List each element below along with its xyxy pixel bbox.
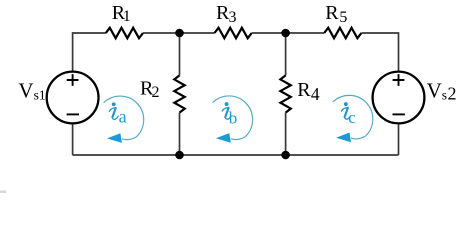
wire R3 to R5: [252, 32, 325, 34]
plus sign of Vs2: [393, 74, 405, 86]
voltage source Vs2: [373, 72, 425, 124]
node dot bottom-left junction: [175, 151, 184, 160]
wire Vs1 bottom lead: [72, 124, 74, 155]
minus sign of Vs2: [393, 113, 405, 115]
node dot bottom-right junction: [281, 151, 290, 160]
label ia: [109, 103, 118, 120]
plus sign of Vs1: [67, 74, 79, 86]
resistor R1: [106, 28, 143, 38]
mesh arrow ib: [213, 96, 253, 143]
wire node1 bottom lead: [179, 113, 181, 155]
mesh arrow ic: [333, 95, 373, 142]
wire top-left segment: [73, 33, 106, 71]
voltage source Vs1: [47, 72, 99, 124]
wire R1 to R3: [143, 32, 215, 34]
minus sign of Vs1: [67, 113, 79, 115]
node dot top-left junction: [175, 29, 184, 38]
resistor R3: [215, 28, 252, 38]
stray mark bottom-left: [0, 191, 6, 194]
mesh arrow ia: [104, 96, 144, 143]
wire node2 top lead: [285, 33, 287, 75]
node dot top-right junction: [281, 29, 290, 38]
svg-text:b: b: [229, 109, 238, 128]
wire Vs2 bottom lead: [398, 124, 400, 155]
wire node1 top lead: [179, 33, 181, 75]
bottom wire: [73, 154, 399, 156]
label ib: [222, 103, 231, 120]
svg-text:a: a: [119, 106, 127, 126]
resistor R5: [324, 28, 361, 38]
svg-text:c: c: [348, 108, 356, 127]
resistor R2: [174, 75, 184, 112]
label ic: [342, 103, 351, 120]
resistor R4: [280, 75, 290, 112]
wire node2 bottom lead: [285, 113, 287, 155]
wire top-right segment: [361, 33, 398, 71]
